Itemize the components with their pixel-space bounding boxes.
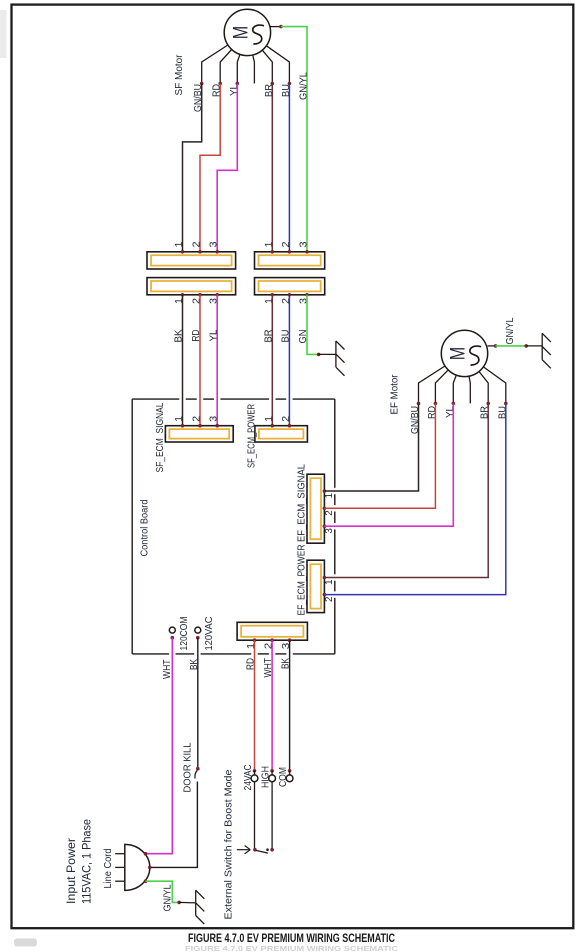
- switch S1 contact a: [253, 848, 257, 852]
- wire SF motor lead BU: [266, 46, 289, 84]
- pin 1 J1 bottom: [181, 293, 185, 297]
- terminal HIGH: [269, 775, 276, 782]
- wire GN/BU to J1 pin1: [183, 84, 202, 252]
- svg-text:3: 3: [299, 298, 310, 304]
- wire RD J1.2 to SF_ECM_SIGNAL.2: [199, 295, 201, 426]
- terminal 120COM: [169, 627, 175, 633]
- wire EF motor lead RD: [435, 370, 448, 404]
- svg-text:115VAC, 1 Phase: 115VAC, 1 Phase: [80, 819, 94, 904]
- wire WHT X1.2 to HIGH: [271, 640, 273, 771]
- svg-text:BR: BR: [480, 406, 491, 419]
- svg-text:GN/BU: GN/BU: [410, 406, 421, 434]
- wire BK DOOR KILL to plug: [150, 782, 198, 868]
- svg-text:BR: BR: [264, 330, 275, 343]
- junction dot SF BR: [271, 82, 275, 86]
- svg-text:3: 3: [209, 415, 220, 421]
- wire ground stub (SF): [319, 353, 336, 355]
- svg-text:EF_ECM_SIGNAL: EF_ECM_SIGNAL: [296, 464, 307, 542]
- svg-text:BK: BK: [174, 329, 185, 342]
- svg-text:1: 1: [174, 241, 185, 247]
- junction dot SF GN/YL: [279, 25, 283, 29]
- svg-text:Line Cord: Line Cord: [103, 849, 114, 889]
- wire SF motor unused stub: [253, 55, 255, 84]
- pin 3 EF_ECM_SIGNAL: [323, 524, 327, 528]
- connector EF_ECM_POWER: [307, 560, 324, 612]
- svg-text:2: 2: [192, 298, 203, 304]
- wire YL EF: [324, 403, 453, 526]
- wire EF motor unused stub: [469, 376, 470, 403]
- pin 1 EF_ECM_POWER: [323, 576, 327, 580]
- svg-text:1: 1: [324, 492, 335, 498]
- wire BR to J2 pin1: [271, 84, 273, 252]
- svg-text:DOOR KILL: DOOR KILL: [183, 742, 194, 792]
- wire ground stub (plug): [179, 901, 196, 903]
- pin 2 SF_ECM_SIGNAL: [198, 424, 202, 428]
- wire EF motor lead YL: [453, 375, 456, 403]
- svg-text:120VAC: 120VAC: [204, 617, 215, 651]
- pin 1 SF_ECM_POWER: [271, 424, 275, 428]
- svg-text:2: 2: [192, 415, 203, 421]
- pin 1 SF_ECM_SIGNAL: [181, 424, 185, 428]
- motor M2 (EF Motor): [441, 330, 487, 376]
- junction dot SF BU: [288, 82, 292, 86]
- svg-text:Control Board: Control Board: [140, 500, 151, 557]
- junction dot terminal: [253, 769, 257, 773]
- svg-text:YL: YL: [208, 329, 219, 341]
- svg-text:2: 2: [264, 642, 275, 649]
- svg-text:GN/YL: GN/YL: [299, 72, 310, 100]
- connector SF_ECM_SIGNAL: [165, 426, 233, 442]
- plug P1 (Line Cord): [125, 844, 150, 890]
- terminal 120VAC: [195, 627, 201, 633]
- svg-text:BU: BU: [497, 406, 508, 419]
- svg-text:BK: BK: [189, 659, 200, 670]
- connector SF_ECM_POWER: [255, 426, 308, 442]
- ground G1: [335, 341, 337, 367]
- svg-text:3: 3: [209, 298, 220, 304]
- junction dot SF RD: [218, 82, 222, 86]
- wire BK 120VAC to DOOR KILL: [197, 638, 199, 769]
- wire EF motor lead BU: [483, 367, 505, 404]
- svg-text:3: 3: [281, 642, 292, 649]
- junction dot plug GN/YL: [177, 901, 181, 905]
- connector EF_ECM_SIGNAL: [307, 474, 324, 543]
- wire GN/BU EF: [324, 403, 418, 491]
- junction dot EF BU: [504, 402, 508, 406]
- wire YL to J1 pin3: [217, 84, 237, 252]
- svg-text:EF_ECM_POWER: EF_ECM_POWER: [296, 545, 307, 616]
- ground G3: [195, 890, 197, 915]
- svg-text:1: 1: [264, 415, 275, 421]
- wire BU to J2 pin2: [288, 84, 290, 252]
- svg-text:BK: BK: [281, 658, 292, 669]
- wire SF motor lead RD: [220, 50, 232, 84]
- pin 1 J1 top: [181, 250, 185, 254]
- switch DOOR KILL contact: [196, 767, 200, 771]
- svg-text:1: 1: [264, 241, 275, 247]
- plug contact GN/YL: [144, 879, 148, 883]
- svg-text:3: 3: [209, 241, 220, 247]
- wire HIGH to switch: [271, 782, 273, 850]
- pin 2 J1 top: [198, 250, 202, 254]
- junction dot EF GN/YL b: [524, 344, 528, 348]
- svg-text:GN/YL: GN/YL: [163, 884, 174, 911]
- wire EF motor lead GN/BU: [419, 366, 446, 403]
- junction dot terminal: [270, 769, 274, 773]
- junction dot SF YL: [236, 82, 240, 86]
- junction dot 120VAC: [196, 636, 200, 640]
- svg-text:24VAC: 24VAC: [243, 764, 254, 790]
- wire YL J1.3 to SF_ECM_SIGNAL.3: [216, 295, 218, 426]
- svg-text:HIGH: HIGH: [261, 766, 272, 788]
- pin 3 X1: [288, 638, 292, 642]
- pin 3 J1 bottom: [215, 293, 219, 297]
- pin 2 J2 bottom: [288, 293, 292, 297]
- wire GN/YL SF (green): [281, 27, 307, 252]
- wire SF motor lead GN/BU: [202, 45, 228, 84]
- svg-text:1: 1: [174, 415, 185, 421]
- terminal 24VAC: [251, 775, 258, 782]
- wire terminal stub: [254, 771, 256, 776]
- junction dot terminal: [288, 769, 292, 773]
- junction dot EF BR: [486, 402, 490, 406]
- svg-text:RD: RD: [191, 330, 202, 342]
- svg-text:WHT: WHT: [263, 658, 274, 678]
- svg-text:3: 3: [299, 241, 310, 247]
- wire RD EF: [324, 403, 435, 508]
- wire GN J2.3 to ground: [307, 295, 319, 355]
- svg-text:120COM: 120COM: [179, 617, 190, 651]
- pin 3 J2 bottom: [305, 293, 309, 297]
- svg-text:SF Motor: SF Motor: [174, 54, 185, 96]
- wire terminal stub: [271, 771, 273, 776]
- svg-text:2: 2: [281, 241, 292, 247]
- pin 1 J2 top: [271, 250, 275, 254]
- svg-text:2: 2: [324, 510, 335, 516]
- wire BR EF: [324, 403, 488, 577]
- junction dot EF RD: [434, 402, 438, 406]
- connector J1 lower half: [147, 278, 236, 295]
- svg-text:GN/YL: GN/YL: [505, 317, 516, 344]
- svg-text:M: M: [447, 347, 470, 361]
- svg-text:SF_ECM_POWER: SF_ECM_POWER: [247, 404, 258, 468]
- junction dot EF GN/YL a: [494, 344, 498, 348]
- wire ground stub (EF): [526, 345, 542, 347]
- svg-text:RD: RD: [246, 658, 257, 670]
- svg-text:COM: COM: [278, 767, 289, 787]
- svg-text:YL: YL: [229, 84, 240, 96]
- wire 24VAC to switch: [254, 782, 256, 850]
- pin 2 J2 top: [288, 250, 292, 254]
- wire GN/YL EF (green): [496, 345, 527, 347]
- wire BU J2.2 to SF_ECM_POWER.2: [288, 295, 290, 426]
- junction dot EF YL: [452, 402, 456, 406]
- svg-text:2: 2: [192, 241, 203, 247]
- switch S1 contact b: [270, 848, 274, 852]
- wire terminal stub: [289, 771, 291, 776]
- svg-text:1: 1: [324, 579, 335, 585]
- control board U1 outline: [132, 398, 179, 400]
- pin 3 J1 top: [215, 250, 219, 254]
- svg-text:M: M: [230, 26, 253, 40]
- wire BK J1.1 to SF_ECM_SIGNAL.1: [182, 295, 184, 426]
- svg-text:3: 3: [324, 528, 335, 534]
- pin 1 X1: [253, 638, 257, 642]
- wire SF motor lead BR: [262, 50, 272, 83]
- svg-text:1: 1: [246, 642, 257, 649]
- svg-text:BU: BU: [281, 84, 292, 97]
- pin 3 SF_ECM_SIGNAL: [215, 424, 219, 428]
- wire RD X1.1 to 24VAC: [254, 640, 256, 771]
- svg-text:2: 2: [281, 298, 292, 304]
- svg-text:1: 1: [264, 298, 275, 304]
- connector J2 upper half: [255, 252, 325, 269]
- svg-text:EF Motor: EF Motor: [390, 374, 401, 415]
- arrow to switch S1: [237, 849, 250, 851]
- junction dot 120COM: [171, 636, 175, 640]
- svg-text:2: 2: [324, 596, 335, 602]
- svg-text:2: 2: [281, 415, 292, 421]
- wire BR J2.1 to SF_ECM_POWER.1: [271, 295, 273, 426]
- wire EF motor lead BR: [479, 372, 488, 404]
- junction dot SF GN/BU: [200, 82, 204, 86]
- svg-text:GN/BU: GN/BU: [193, 84, 204, 112]
- svg-text:RD: RD: [212, 84, 223, 97]
- wire SF motor lead YL: [237, 54, 240, 83]
- svg-text:SF_ECM_SIGNAL: SF_ECM_SIGNAL: [155, 402, 166, 472]
- svg-text:External Switch for Boost Mode: External Switch for Boost Mode: [224, 769, 235, 919]
- wire BU EF: [324, 403, 505, 594]
- svg-text:YL: YL: [445, 406, 456, 418]
- pin 2 J1 bottom: [198, 293, 202, 297]
- wire GN/YL plug to ground: [146, 881, 180, 902]
- wire BK X1.3 to COM: [289, 640, 291, 771]
- switch S1 blade: [256, 850, 268, 853]
- motor M1 (SF Motor): [224, 9, 270, 55]
- junction dot EF GN/BU: [417, 402, 421, 406]
- svg-text:FIGURE 4.7.0 EV PREMIUM WIRING: FIGURE 4.7.0 EV PREMIUM WIRING SCHEMATIC: [188, 931, 395, 945]
- terminal COM: [286, 775, 293, 782]
- plug contact BK: [148, 866, 152, 870]
- junction dot GN-ground: [317, 353, 321, 357]
- connector J1 upper half: [147, 252, 236, 269]
- svg-text:BU: BU: [281, 330, 292, 343]
- wire RD to J1 pin2: [200, 84, 220, 252]
- svg-text:BR: BR: [264, 84, 275, 97]
- ground G2: [541, 333, 543, 359]
- pin 2 EF_ECM_POWER: [323, 593, 327, 597]
- pin 3 J2 top: [305, 250, 309, 254]
- svg-text:WHT: WHT: [162, 660, 173, 680]
- wire WHT 120COM to plug: [146, 638, 173, 854]
- svg-text:Input Power: Input Power: [64, 838, 78, 904]
- svg-text:FIGURE 4.7.0 EV PREMIUM WIRING: FIGURE 4.7.0 EV PREMIUM WIRING SCHEMATIC: [185, 944, 399, 952]
- connector J2 lower half: [255, 278, 325, 295]
- svg-text:1: 1: [174, 298, 185, 304]
- pin 2 EF_ECM_SIGNAL: [323, 507, 327, 511]
- pin 1 EF_ECM_SIGNAL: [323, 489, 327, 493]
- connector X1 (board bottom): [237, 622, 307, 640]
- svg-text:RD: RD: [427, 406, 438, 419]
- svg-text:GN: GN: [298, 330, 309, 344]
- pin 2 X1: [270, 638, 274, 642]
- switch DOOR KILL blade: [195, 770, 197, 778]
- wire SF GN/YL motor stub: [270, 26, 281, 28]
- pin 1 J2 bottom: [271, 293, 275, 297]
- plug contact WHT: [144, 852, 148, 856]
- pin 2 SF_ECM_POWER: [288, 424, 292, 428]
- wire EF GN/YL motor stub: [488, 345, 496, 347]
